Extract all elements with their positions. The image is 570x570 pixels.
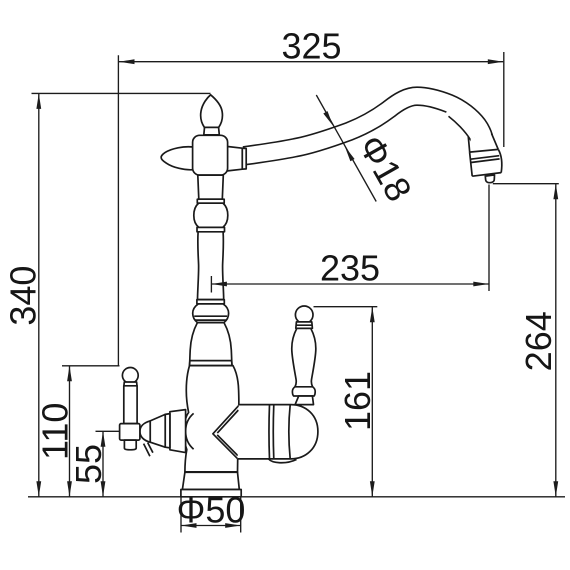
svg-text:235: 235 <box>320 247 380 288</box>
svg-text:161: 161 <box>337 371 378 431</box>
svg-text:Φ50: Φ50 <box>177 490 246 531</box>
svg-text:264: 264 <box>518 311 559 371</box>
svg-text:325: 325 <box>281 26 341 67</box>
svg-text:340: 340 <box>3 266 44 326</box>
svg-text:55: 55 <box>68 444 109 484</box>
